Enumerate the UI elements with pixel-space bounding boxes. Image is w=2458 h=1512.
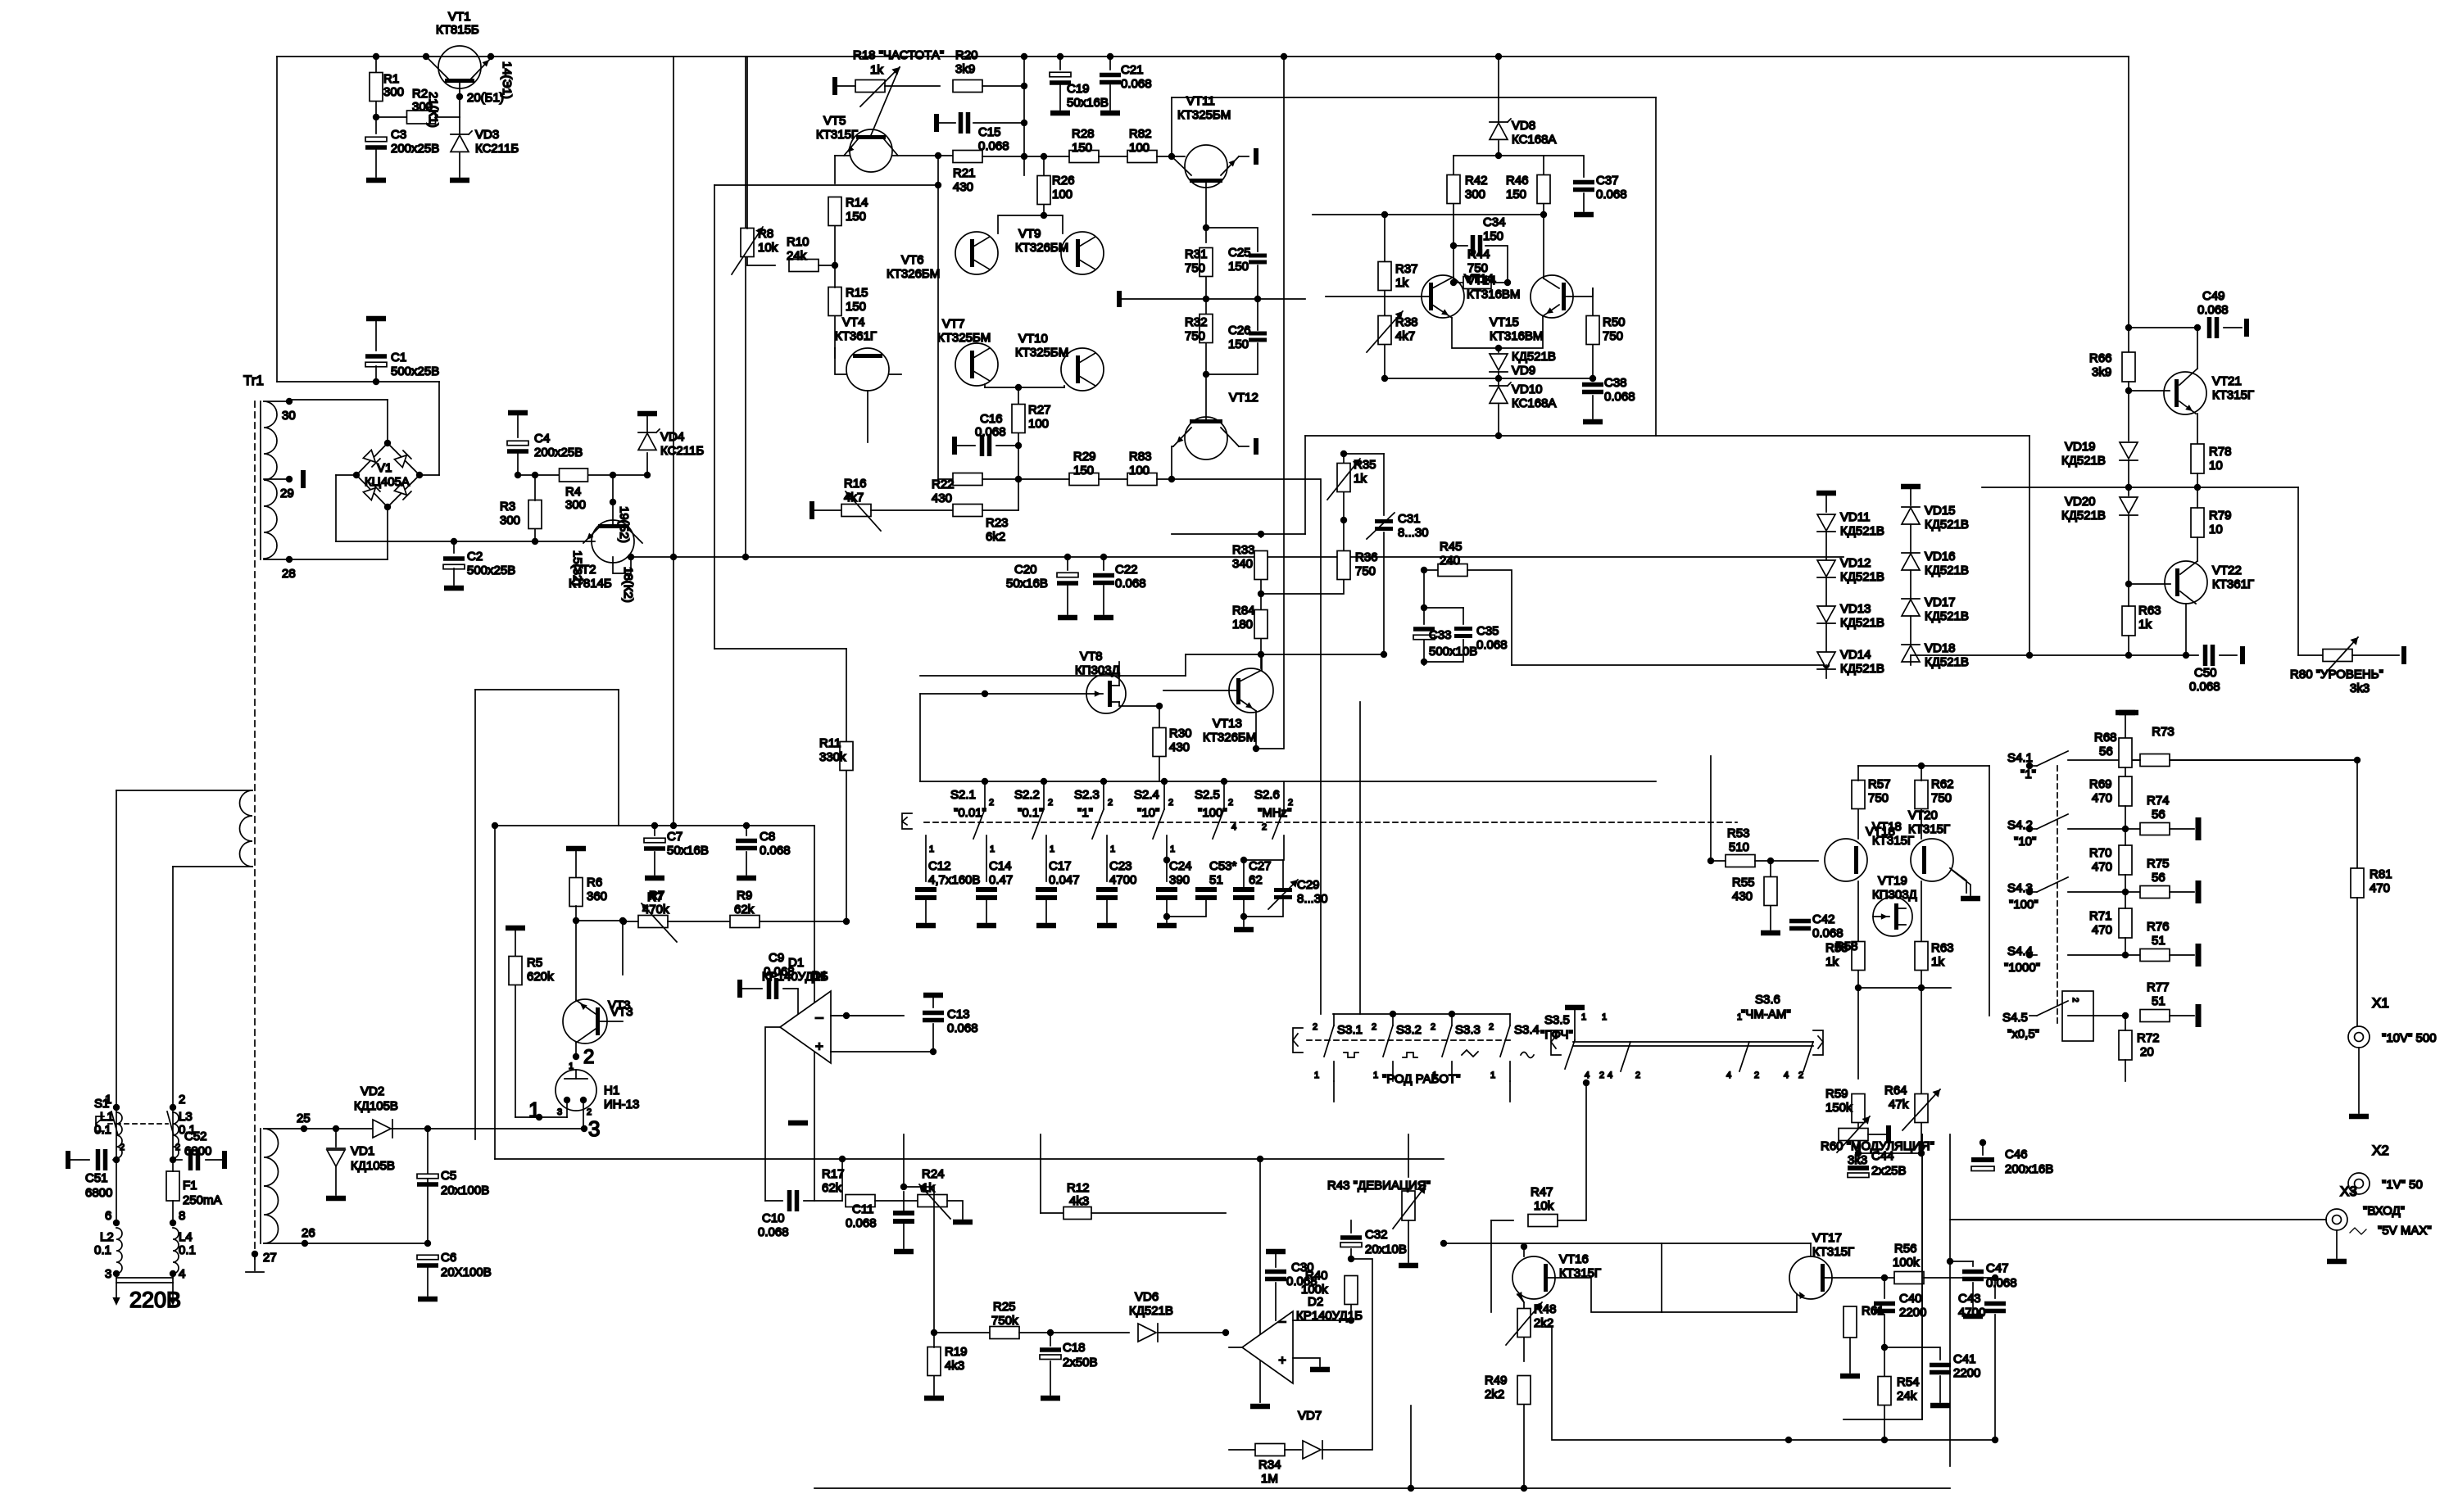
svg-text:62k: 62k [734, 903, 755, 917]
svg-text:R18 "ЧАСТОТА": R18 "ЧАСТОТА" [853, 48, 944, 62]
svg-text:R60 "МОДУЛЯЦИЯ": R60 "МОДУЛЯЦИЯ" [1821, 1139, 1934, 1153]
svg-text:C16: C16 [980, 412, 1003, 426]
svg-text:2: 2 [587, 1107, 592, 1117]
svg-text:0.068: 0.068 [975, 425, 1006, 439]
svg-text:100k: 100k [1893, 1256, 1920, 1270]
svg-text:VD9: VD9 [1512, 364, 1535, 378]
svg-text:100k: 100k [1301, 1283, 1328, 1297]
svg-text:56: 56 [2099, 745, 2113, 758]
svg-text:R43 "ДЕВИАЦИЯ": R43 "ДЕВИАЦИЯ" [1327, 1179, 1431, 1193]
svg-text:VT3: VT3 [610, 1005, 633, 1019]
svg-text:C33: C33 [1429, 628, 1452, 642]
svg-text:0.068: 0.068 [1115, 577, 1146, 591]
svg-text:C3: C3 [391, 128, 406, 142]
svg-text:VT21: VT21 [2212, 374, 2242, 388]
svg-text:VT4: VT4 [842, 315, 865, 329]
svg-text:2: 2 [179, 1093, 185, 1107]
svg-text:2: 2 [1431, 1022, 1435, 1032]
svg-text:C17: C17 [1049, 859, 1072, 873]
svg-text:100: 100 [1129, 464, 1150, 478]
svg-text:150: 150 [1072, 141, 1092, 155]
svg-text:S2.5: S2.5 [1195, 788, 1220, 802]
svg-text:100: 100 [1129, 141, 1150, 155]
svg-text:390: 390 [1169, 873, 1190, 887]
svg-text:R74: R74 [2147, 794, 2170, 808]
svg-text:R17: R17 [822, 1167, 845, 1181]
svg-text:C25: C25 [1228, 246, 1251, 260]
svg-text:25: 25 [297, 1111, 311, 1125]
svg-text:"10": "10" [1137, 806, 1159, 820]
svg-text:VD20: VD20 [2065, 495, 2096, 509]
svg-text:430: 430 [953, 180, 973, 194]
svg-text:3k9: 3k9 [955, 62, 975, 76]
svg-text:2: 2 [1228, 798, 1233, 808]
svg-text:150: 150 [846, 210, 866, 224]
svg-text:220В: 220В [129, 1288, 181, 1312]
svg-text:C14: C14 [989, 859, 1012, 873]
svg-text:VT6: VT6 [901, 253, 924, 267]
svg-text:0.1: 0.1 [179, 1243, 196, 1257]
svg-text:2: 2 [989, 798, 994, 808]
svg-text:150k: 150k [1825, 1101, 1853, 1115]
svg-text:10: 10 [2209, 459, 2223, 473]
svg-text:R80 "УРОВЕНЬ": R80 "УРОВЕНЬ" [2290, 668, 2383, 681]
svg-text:C37: C37 [1596, 174, 1619, 188]
svg-text:250mA: 250mA [183, 1193, 222, 1207]
svg-text:C15: C15 [978, 125, 1001, 139]
svg-text:"ВХОД": "ВХОД" [2363, 1204, 2405, 1218]
svg-text:C29: C29 [1297, 878, 1320, 892]
svg-text:КТ326БМ: КТ326БМ [1203, 731, 1256, 745]
svg-text:VT14: VT14 [1467, 274, 1496, 287]
svg-text:VT11: VT11 [1186, 94, 1215, 108]
svg-text:R63: R63 [1931, 941, 1954, 955]
svg-text:R58: R58 [1825, 941, 1848, 955]
svg-text:1k: 1k [1395, 276, 1408, 290]
svg-text:50x16В: 50x16В [1067, 96, 1109, 110]
svg-text:0.068: 0.068 [1596, 188, 1627, 201]
svg-text:C32: C32 [1365, 1228, 1388, 1242]
svg-text:0.068: 0.068 [2197, 303, 2229, 317]
svg-text:0.068: 0.068 [758, 1225, 789, 1239]
svg-text:20x10В: 20x10В [1365, 1243, 1407, 1256]
svg-text:"1": "1" [1077, 806, 1093, 820]
svg-text:C47: C47 [1986, 1261, 2009, 1275]
svg-text:R77: R77 [2147, 980, 2170, 994]
svg-text:4k7: 4k7 [1395, 329, 1415, 343]
svg-text:1k: 1k [922, 1181, 935, 1195]
svg-text:300: 300 [1465, 188, 1485, 201]
svg-text:VD6: VD6 [1135, 1290, 1159, 1304]
svg-text:1: 1 [1314, 1071, 1319, 1080]
svg-text:470k: 470k [642, 903, 669, 917]
svg-text:2200: 2200 [1953, 1366, 1980, 1380]
svg-text:200x25В: 200x25В [391, 142, 439, 156]
svg-text:ИН-13: ИН-13 [604, 1098, 639, 1111]
svg-text:R45: R45 [1440, 540, 1463, 554]
svg-text:R84: R84 [1232, 604, 1255, 618]
svg-text:R8: R8 [758, 227, 773, 241]
svg-text:4: 4 [1784, 1071, 1789, 1080]
svg-text:КД521В: КД521В [1925, 564, 1969, 577]
svg-text:VD8: VD8 [1512, 119, 1535, 133]
svg-text:C41: C41 [1953, 1352, 1976, 1366]
svg-text:2: 2 [1048, 798, 1053, 808]
svg-text:47k: 47k [1889, 1098, 1909, 1111]
svg-text:430: 430 [932, 491, 952, 505]
svg-text:C7: C7 [667, 830, 683, 844]
svg-text:R9: R9 [737, 889, 752, 903]
svg-text:620k: 620k [527, 970, 554, 984]
svg-text:430: 430 [1169, 740, 1190, 754]
svg-text:750: 750 [1355, 564, 1376, 578]
svg-text:S3.6: S3.6 [1755, 993, 1780, 1007]
svg-text:VD12: VD12 [1840, 556, 1871, 570]
svg-text:КД521В: КД521В [1925, 609, 1969, 623]
svg-text:КД521В: КД521В [1840, 524, 1884, 538]
svg-text:6k2: 6k2 [986, 530, 1005, 544]
svg-text:КТ326БМ: КТ326БМ [887, 267, 940, 281]
svg-text:20(Б1): 20(Б1) [467, 91, 504, 105]
svg-text:1k: 1k [1354, 472, 1367, 486]
svg-text:R28: R28 [1072, 127, 1095, 141]
svg-text:4k3: 4k3 [1069, 1194, 1089, 1208]
svg-text:КТ325БМ: КТ325БМ [1015, 346, 1068, 360]
svg-text:3k3: 3k3 [1848, 1153, 1867, 1167]
svg-text:–: – [1279, 1315, 1286, 1329]
svg-text:VT17: VT17 [1812, 1231, 1842, 1245]
svg-text:R11: R11 [819, 736, 841, 750]
svg-text:C43: C43 [1958, 1292, 1981, 1306]
svg-text:КС168А: КС168А [1512, 133, 1556, 147]
svg-text:VT1: VT1 [448, 10, 471, 24]
svg-text:2: 2 [1798, 1071, 1803, 1080]
svg-text:S3.4: S3.4 [1514, 1023, 1540, 1037]
svg-text:4: 4 [1585, 1071, 1590, 1080]
svg-text:20X100В: 20X100В [441, 1265, 492, 1279]
svg-text:50x16В: 50x16В [1006, 577, 1048, 591]
svg-text:10k: 10k [758, 241, 778, 255]
svg-text:VT10: VT10 [1018, 332, 1048, 346]
svg-text:24k: 24k [787, 249, 807, 263]
svg-text:R71: R71 [2089, 909, 2112, 923]
svg-text:S4.5: S4.5 [2002, 1011, 2028, 1025]
svg-text:2: 2 [1168, 798, 1173, 808]
svg-text:R31: R31 [1185, 247, 1208, 261]
svg-text:R20: R20 [955, 48, 978, 62]
svg-text:КТ316ВМ: КТ316ВМ [1490, 329, 1543, 343]
svg-text:300: 300 [565, 498, 586, 512]
svg-text:"РОД РАБОТ": "РОД РАБОТ" [1382, 1072, 1461, 1086]
svg-text:VD15: VD15 [1925, 504, 1956, 518]
svg-text:C34: C34 [1483, 215, 1506, 229]
svg-text:500x25В: 500x25В [391, 364, 439, 378]
svg-text:R34: R34 [1258, 1458, 1281, 1472]
svg-text:200x25В: 200x25В [534, 446, 583, 459]
svg-text:4700: 4700 [1109, 873, 1136, 887]
svg-text:R15: R15 [846, 286, 868, 300]
svg-text:Tr1: Tr1 [243, 373, 264, 388]
svg-text:КС168А: КС168А [1512, 396, 1556, 410]
svg-text:C19: C19 [1067, 82, 1090, 96]
svg-text:"x0,5": "x0,5" [2007, 1027, 2039, 1041]
svg-text:6800: 6800 [85, 1186, 112, 1200]
svg-text:0.047: 0.047 [1049, 873, 1080, 887]
svg-text:0.068: 0.068 [1812, 926, 1843, 940]
svg-text:S2.3: S2.3 [1074, 788, 1100, 802]
svg-text:C46: C46 [2005, 1148, 2028, 1161]
svg-text:15(32): 15(32) [570, 550, 584, 586]
svg-text:1: 1 [528, 1098, 540, 1122]
svg-text:R63: R63 [2138, 604, 2161, 618]
svg-text:510: 510 [1729, 840, 1749, 854]
svg-text:R19: R19 [945, 1345, 968, 1359]
svg-text:КТ315Г: КТ315Г [1908, 822, 1950, 836]
svg-text:R30: R30 [1169, 727, 1192, 740]
svg-text:"ЧМ-АМ": "ЧМ-АМ" [1741, 1007, 1791, 1021]
svg-text:750k: 750k [991, 1314, 1018, 1328]
svg-text:КП303Д: КП303Д [1872, 888, 1917, 902]
svg-text:R48: R48 [1534, 1302, 1557, 1316]
svg-text:R81: R81 [2370, 867, 2392, 881]
svg-text:VT22: VT22 [2212, 564, 2242, 577]
svg-text:2: 2 [2070, 998, 2079, 1003]
svg-text:C22: C22 [1115, 563, 1138, 577]
svg-text:R75: R75 [2147, 857, 2170, 871]
svg-text:VD4: VD4 [660, 430, 684, 444]
svg-text:S2.6: S2.6 [1254, 788, 1280, 802]
svg-text:0.068: 0.068 [1476, 638, 1508, 652]
svg-text:"1000": "1000" [2004, 961, 2040, 975]
svg-text:КТ325БМ: КТ325БМ [937, 331, 991, 345]
svg-text:S2.2: S2.2 [1014, 788, 1040, 802]
svg-text:R82: R82 [1129, 127, 1152, 141]
svg-text:150: 150 [1228, 337, 1249, 351]
svg-text:300: 300 [383, 85, 404, 99]
svg-text:1: 1 [1050, 844, 1054, 854]
svg-text:D1: D1 [788, 956, 804, 970]
svg-text:200x16В: 200x16В [2005, 1162, 2053, 1176]
svg-text:750: 750 [1185, 261, 1205, 275]
svg-text:"10V" 500: "10V" 500 [2382, 1031, 2437, 1045]
svg-text:24k: 24k [1897, 1389, 1917, 1403]
svg-text:R4: R4 [565, 485, 581, 499]
svg-text:"1V" 50: "1V" 50 [2382, 1178, 2423, 1192]
svg-text:750: 750 [1603, 329, 1623, 343]
svg-text:R54: R54 [1897, 1375, 1920, 1389]
svg-text:1: 1 [1170, 844, 1175, 854]
svg-text:R10: R10 [787, 235, 810, 249]
svg-text:КТ815Б: КТ815Б [436, 23, 479, 37]
svg-text:750: 750 [1931, 791, 1952, 805]
svg-text:VD17: VD17 [1925, 595, 1956, 609]
svg-text:S3.3: S3.3 [1455, 1023, 1481, 1037]
svg-text:2: 2 [1754, 1071, 1759, 1080]
svg-text:18(К2): 18(К2) [621, 567, 635, 603]
svg-text:C53*: C53* [1209, 859, 1237, 873]
svg-text:КД521В: КД521В [2061, 454, 2106, 468]
svg-text:4: 4 [1608, 1071, 1612, 1080]
svg-text:1k: 1k [870, 63, 883, 77]
svg-text:+: + [815, 1039, 823, 1054]
svg-text:500x10В: 500x10В [1429, 645, 1477, 659]
svg-text:S2.4: S2.4 [1134, 788, 1159, 802]
svg-text:F1: F1 [183, 1179, 197, 1193]
svg-text:500x25В: 500x25В [467, 564, 515, 577]
svg-text:C51: C51 [85, 1171, 108, 1185]
svg-text:R36: R36 [1355, 550, 1378, 564]
svg-text:R14: R14 [846, 196, 868, 210]
svg-text:КД105В: КД105В [351, 1159, 395, 1173]
svg-text:R22: R22 [932, 478, 955, 491]
svg-text:50x16В: 50x16В [667, 844, 709, 858]
svg-text:0.068: 0.068 [760, 844, 791, 858]
svg-text:56: 56 [2152, 808, 2165, 822]
svg-text:4k3: 4k3 [945, 1359, 964, 1373]
svg-text:1: 1 [1490, 1071, 1495, 1080]
svg-text:2: 2 [1313, 1022, 1317, 1032]
svg-text:R62: R62 [1931, 777, 1954, 791]
svg-text:R27: R27 [1028, 403, 1051, 417]
svg-text:VT19: VT19 [1878, 874, 1907, 888]
svg-text:R76: R76 [2147, 920, 2170, 934]
svg-text:R50: R50 [1603, 315, 1626, 329]
svg-text:4k7: 4k7 [844, 491, 864, 505]
svg-text:R79: R79 [2209, 509, 2232, 523]
svg-text:1k: 1k [1931, 955, 1944, 969]
svg-text:0.1: 0.1 [94, 1243, 111, 1257]
svg-text:R53: R53 [1727, 826, 1750, 840]
svg-text:L2: L2 [100, 1230, 114, 1244]
svg-text:20: 20 [2140, 1045, 2154, 1059]
svg-text:4,7x160В: 4,7x160В [928, 873, 980, 887]
svg-text:C52: C52 [184, 1129, 207, 1143]
svg-text:C5: C5 [441, 1169, 456, 1183]
svg-text:R29: R29 [1073, 450, 1096, 464]
svg-text:R68: R68 [2094, 731, 2117, 745]
svg-text:2k2: 2k2 [1534, 1316, 1553, 1330]
svg-text:21(К1): 21(К1) [426, 92, 440, 128]
svg-text:КЦ405А: КЦ405А [365, 475, 410, 489]
svg-text:КТ325БМ: КТ325БМ [1177, 108, 1231, 122]
svg-text:КТ315Г: КТ315Г [2212, 388, 2254, 402]
svg-text:3k9: 3k9 [2092, 365, 2111, 379]
svg-text:2x25В: 2x25В [1871, 1164, 1907, 1178]
svg-text:C31: C31 [1398, 512, 1421, 526]
svg-text:VD10: VD10 [1512, 383, 1543, 396]
svg-text:0.47: 0.47 [989, 873, 1013, 887]
svg-text:VD3: VD3 [475, 128, 499, 142]
svg-text:VD2: VD2 [361, 1084, 384, 1098]
svg-text:VT12: VT12 [1229, 391, 1258, 405]
svg-text:VD11: VD11 [1840, 510, 1870, 524]
svg-text:360: 360 [587, 890, 607, 903]
svg-text:VT16: VT16 [1559, 1252, 1589, 1266]
svg-text:R72: R72 [2137, 1031, 2160, 1045]
svg-text:100: 100 [1052, 188, 1073, 201]
svg-text:C2: C2 [467, 550, 483, 564]
svg-text:470: 470 [2092, 860, 2112, 874]
svg-text:51: 51 [1209, 873, 1223, 887]
svg-text:C20: C20 [1014, 563, 1037, 577]
svg-text:2: 2 [1635, 1071, 1640, 1080]
svg-text:R21: R21 [953, 166, 976, 180]
svg-text:–: – [815, 1009, 823, 1025]
svg-text:"100": "100" [2009, 898, 2039, 912]
svg-text:КД521В: КД521В [1840, 570, 1884, 584]
svg-text:10: 10 [2209, 523, 2223, 536]
svg-text:C26: C26 [1228, 324, 1251, 337]
svg-text:C35: C35 [1476, 624, 1499, 638]
svg-text:"0.1": "0.1" [1018, 806, 1044, 820]
svg-text:"MHz": "MHz" [1258, 806, 1291, 820]
svg-text:R61: R61 [1862, 1304, 1884, 1318]
svg-text:C38: C38 [1604, 376, 1627, 390]
svg-text:КТ315Г: КТ315Г [816, 128, 858, 142]
svg-text:VT8: VT8 [1080, 650, 1103, 663]
svg-text:C42: C42 [1812, 912, 1835, 926]
svg-text:1: 1 [1110, 844, 1115, 854]
svg-text:D2: D2 [1308, 1295, 1323, 1309]
svg-text:C23: C23 [1109, 859, 1132, 873]
svg-text:R47: R47 [1531, 1185, 1553, 1199]
svg-text:VT20: VT20 [1908, 808, 1938, 822]
svg-text:VD14: VD14 [1840, 648, 1871, 662]
svg-text:C8: C8 [760, 830, 775, 844]
svg-text:30: 30 [282, 409, 296, 423]
svg-text:8...30: 8...30 [1297, 892, 1328, 906]
svg-text:1: 1 [929, 844, 934, 854]
svg-text:6800: 6800 [184, 1144, 211, 1158]
svg-text:3: 3 [557, 1107, 562, 1117]
svg-text:S3.5: S3.5 [1544, 1013, 1570, 1027]
svg-text:КС211Б: КС211Б [475, 142, 519, 156]
svg-text:VD18: VD18 [1925, 641, 1956, 655]
svg-text:8...30: 8...30 [1398, 526, 1429, 540]
svg-text:R78: R78 [2209, 445, 2232, 459]
svg-text:2: 2 [1288, 798, 1293, 808]
svg-text:КР140УД1Б: КР140УД1Б [762, 970, 828, 984]
svg-text:180: 180 [1232, 618, 1253, 632]
svg-text:КТ316ВМ: КТ316ВМ [1467, 287, 1520, 301]
svg-text:VD1: VD1 [351, 1144, 374, 1158]
svg-text:C49: C49 [2202, 289, 2225, 303]
svg-text:1: 1 [1581, 1012, 1586, 1022]
svg-text:240: 240 [1440, 554, 1460, 568]
svg-text:R59: R59 [1825, 1087, 1848, 1101]
svg-text:750: 750 [1185, 329, 1205, 343]
svg-text:VT7: VT7 [942, 317, 965, 331]
svg-text:3k3: 3k3 [2350, 681, 2370, 695]
svg-text:62k: 62k [822, 1181, 842, 1195]
svg-text:R83: R83 [1129, 450, 1152, 464]
svg-text:27: 27 [263, 1251, 277, 1265]
svg-text:C4: C4 [534, 432, 550, 446]
svg-text:R57: R57 [1868, 777, 1891, 791]
svg-text:R23: R23 [986, 516, 1009, 530]
svg-text:470: 470 [2092, 791, 2112, 805]
svg-text:L3: L3 [179, 1110, 193, 1124]
svg-text:2k2: 2k2 [1485, 1388, 1504, 1401]
svg-text:X2: X2 [2372, 1143, 2389, 1158]
svg-text:150: 150 [1073, 464, 1094, 478]
svg-text:КТ326БМ: КТ326БМ [1015, 241, 1068, 255]
svg-text:VT13: VT13 [1213, 717, 1242, 731]
svg-text:"1": "1" [2020, 767, 2036, 781]
svg-text:28: 28 [282, 567, 296, 581]
svg-text:S3.1: S3.1 [1337, 1023, 1363, 1037]
svg-text:3: 3 [105, 1267, 111, 1281]
